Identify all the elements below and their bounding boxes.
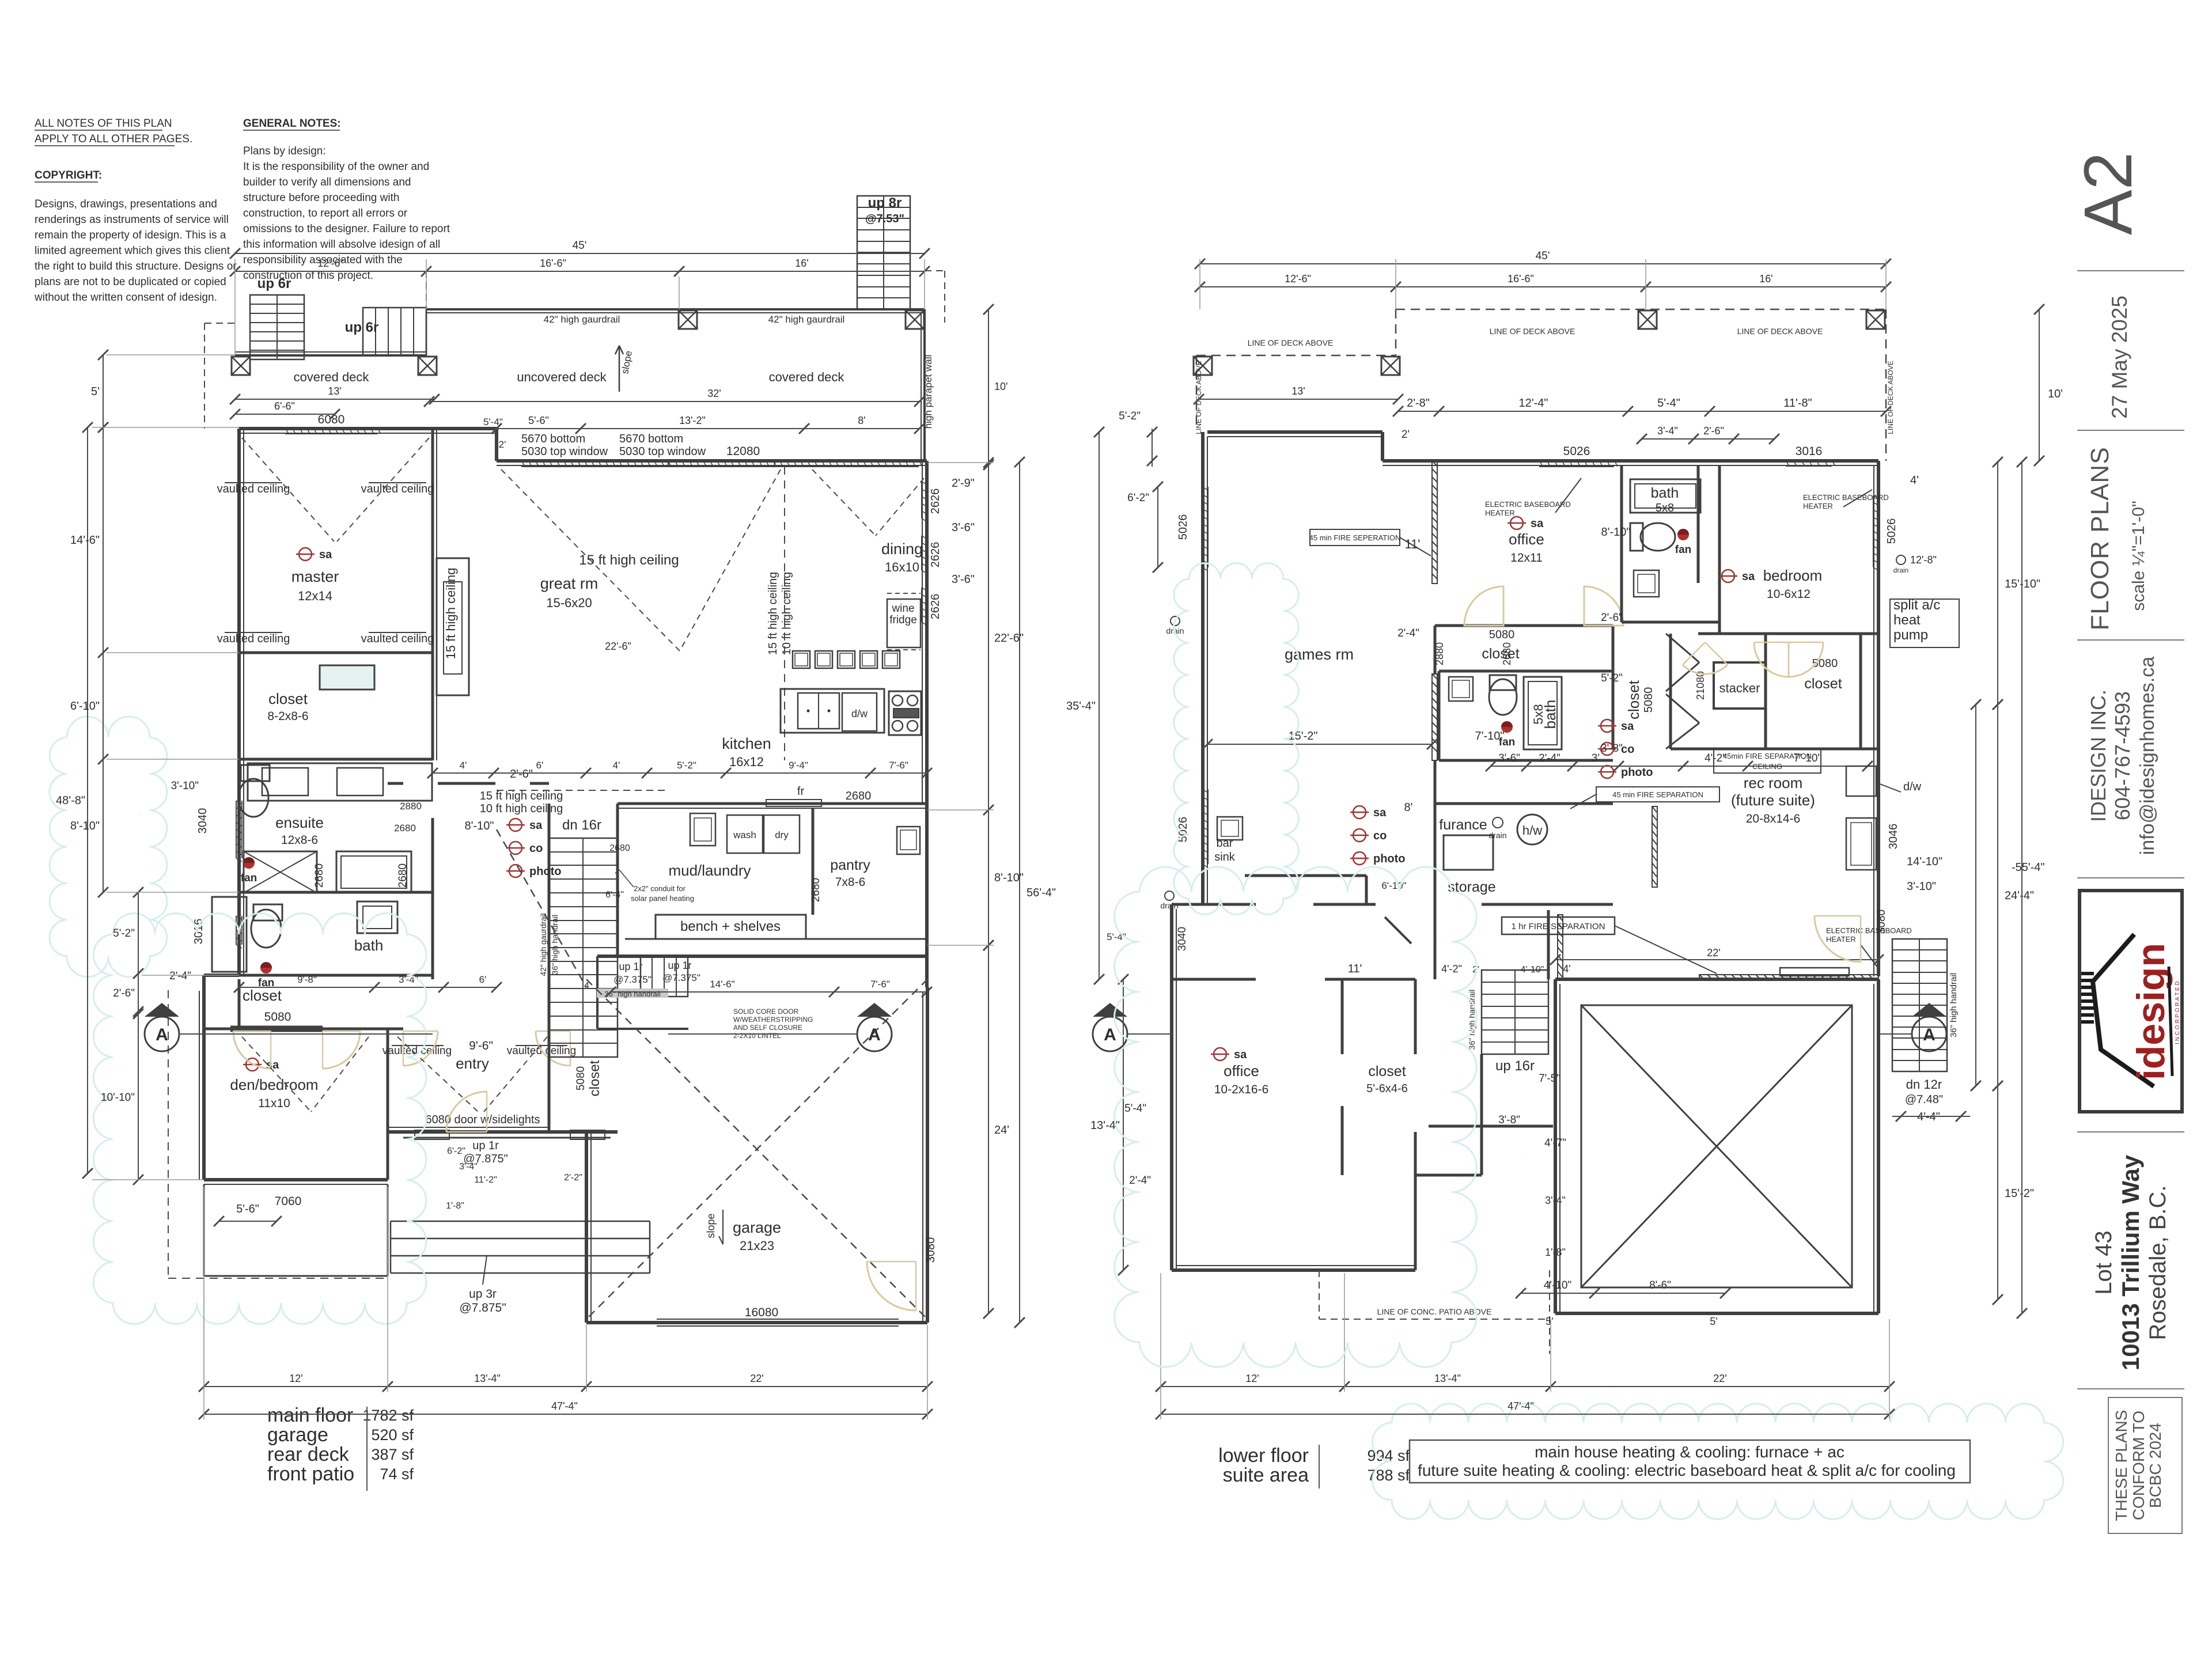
svg-text:Lot 43: Lot 43 xyxy=(2091,1230,2116,1294)
svg-text:rear deck: rear deck xyxy=(267,1444,350,1465)
svg-text:sa: sa xyxy=(319,548,332,561)
svg-text:10': 10' xyxy=(994,381,1007,392)
svg-text:this information will absolve: this information will absolve idesign of… xyxy=(243,238,440,251)
svg-text:split a/c: split a/c xyxy=(1893,597,1940,613)
svg-text:2'-6": 2'-6" xyxy=(1703,425,1724,437)
svg-text:closet: closet xyxy=(587,1060,603,1096)
svg-text:2880: 2880 xyxy=(1434,642,1445,665)
svg-text:LINE OF DECK ABOVE: LINE OF DECK ABOVE xyxy=(1887,361,1895,434)
svg-text:10 ft high ceiling: 10 ft high ceiling xyxy=(781,572,793,656)
svg-text:42" high gaurdrail: 42" high gaurdrail xyxy=(768,314,845,325)
svg-text:10'-10": 10'-10" xyxy=(101,1092,135,1104)
svg-text:16'-6": 16'-6" xyxy=(540,257,566,269)
svg-text:5030 top window: 5030 top window xyxy=(521,445,608,458)
svg-text:20-8x14-6: 20-8x14-6 xyxy=(1746,812,1801,825)
svg-text:3'-6": 3'-6" xyxy=(952,521,975,534)
svg-text:7'-10": 7'-10" xyxy=(1475,730,1505,743)
svg-text:5': 5' xyxy=(1710,1316,1717,1327)
svg-text:closet: closet xyxy=(1625,680,1642,719)
svg-text:fridge: fridge xyxy=(889,614,917,626)
svg-text:2'-4": 2'-4" xyxy=(1539,752,1560,764)
svg-text:sa: sa xyxy=(1234,1048,1247,1061)
svg-text:27 May 2025: 27 May 2025 xyxy=(2108,296,2131,419)
svg-text:uncovered deck: uncovered deck xyxy=(517,370,607,384)
svg-text:@7.375": @7.375" xyxy=(613,974,652,985)
svg-text:h/w: h/w xyxy=(1522,823,1542,838)
svg-text:1'-8": 1'-8" xyxy=(446,1201,464,1211)
svg-text:12x11: 12x11 xyxy=(1510,551,1543,565)
svg-text:slope: slope xyxy=(705,1213,717,1238)
svg-text:lower floor: lower floor xyxy=(1218,1445,1309,1467)
svg-text:GENERAL NOTES:: GENERAL NOTES: xyxy=(243,118,341,130)
svg-text:stacker: stacker xyxy=(1719,681,1760,695)
svg-text:d/w: d/w xyxy=(1903,781,1922,793)
svg-text:A: A xyxy=(1104,1025,1116,1044)
svg-text:8'-6": 8'-6" xyxy=(1649,1279,1671,1291)
svg-text:11'-2": 11'-2" xyxy=(474,1175,497,1185)
svg-text:8': 8' xyxy=(1404,801,1413,814)
svg-text:plans are not to be duplicated: plans are not to be duplicated or copied xyxy=(35,276,226,288)
svg-text:sink: sink xyxy=(1214,851,1236,863)
svg-text:9'-6": 9'-6" xyxy=(469,1039,493,1052)
svg-text:the right to build this struct: the right to build this structure. Desig… xyxy=(35,260,237,272)
svg-text:5080: 5080 xyxy=(1489,628,1515,641)
svg-text:4': 4' xyxy=(613,760,620,771)
svg-text:3046: 3046 xyxy=(1887,824,1900,850)
svg-text:15 ft high ceiling: 15 ft high ceiling xyxy=(444,568,458,660)
svg-text:47'-4": 47'-4" xyxy=(551,1400,578,1412)
svg-text:ELECTRIC BASEBOARD: ELECTRIC BASEBOARD xyxy=(1803,493,1889,502)
svg-text:56'-4": 56'-4" xyxy=(1027,887,1056,899)
svg-text:up 8r: up 8r xyxy=(868,195,902,211)
svg-text:3'-10": 3'-10" xyxy=(1907,880,1936,893)
svg-text:dn 12r: dn 12r xyxy=(1906,1077,1942,1092)
svg-text:front patio: front patio xyxy=(267,1463,354,1485)
svg-text:1782 sf: 1782 sf xyxy=(362,1407,414,1424)
svg-text:ELECTRIC BASEBOARD: ELECTRIC BASEBOARD xyxy=(1485,500,1571,509)
svg-text:2'-6": 2'-6" xyxy=(510,768,533,781)
svg-text:2'-6": 2'-6" xyxy=(1601,612,1623,624)
svg-text:15-6x20: 15-6x20 xyxy=(546,596,592,610)
svg-text:up 6r: up 6r xyxy=(257,276,291,291)
svg-text:5': 5' xyxy=(91,385,100,398)
svg-text:rec room: rec room xyxy=(1744,774,1803,791)
svg-text:16': 16' xyxy=(1759,273,1772,285)
svg-text:BCBC 2024: BCBC 2024 xyxy=(2146,1423,2164,1508)
svg-text:13'-4": 13'-4" xyxy=(1434,1373,1461,1384)
svg-text:5026: 5026 xyxy=(1885,518,1898,544)
svg-text:LINE OF DECK ABOVE: LINE OF DECK ABOVE xyxy=(1737,327,1823,336)
svg-text:520 sf: 520 sf xyxy=(371,1426,414,1444)
svg-text:74 sf: 74 sf xyxy=(380,1465,414,1483)
svg-text:2'-8": 2'-8" xyxy=(1407,397,1430,410)
svg-text:up 6r: up 6r xyxy=(345,320,379,335)
svg-text:up 16r: up 16r xyxy=(1495,1058,1535,1074)
svg-text:bath: bath xyxy=(354,937,384,954)
svg-text:15 ft high ceiling: 15 ft high ceiling xyxy=(579,552,679,568)
svg-text:closet: closet xyxy=(1368,1063,1406,1080)
svg-text:wash: wash xyxy=(733,829,756,840)
svg-text:HEATER: HEATER xyxy=(1803,502,1833,510)
svg-text:12'-8": 12'-8" xyxy=(1910,554,1937,566)
svg-text:wine: wine xyxy=(891,603,914,615)
svg-text:2626: 2626 xyxy=(929,488,942,514)
svg-text:32': 32' xyxy=(707,388,721,399)
svg-text:APPLY TO ALL OTHER PAGES.: APPLY TO ALL OTHER PAGES. xyxy=(35,133,192,145)
svg-text:CEILING: CEILING xyxy=(1752,762,1782,771)
svg-text:renderings as instruments of s: renderings as instruments of service wil… xyxy=(35,214,229,226)
svg-text:up 3r: up 3r xyxy=(469,1287,497,1301)
svg-text:22': 22' xyxy=(750,1373,763,1384)
svg-text:bench + shelves: bench + shelves xyxy=(680,919,781,934)
svg-text:2680: 2680 xyxy=(397,863,409,888)
svg-text:COPYRIGHT:: COPYRIGHT: xyxy=(35,169,102,181)
svg-text:IDESIGN INC.: IDESIGN INC. xyxy=(2086,690,2110,822)
svg-text:8': 8' xyxy=(858,415,865,426)
svg-text:HEATER: HEATER xyxy=(1485,509,1515,517)
svg-text:2': 2' xyxy=(499,439,506,450)
svg-text:pantry: pantry xyxy=(830,857,870,873)
svg-text:15'-10": 15'-10" xyxy=(2005,578,2040,590)
svg-text:co: co xyxy=(1373,829,1387,842)
svg-text:3'-6": 3'-6" xyxy=(952,573,975,586)
svg-text:main house heating & cooling:: main house heating & cooling: furnace + … xyxy=(1535,1443,1844,1461)
svg-text:5026: 5026 xyxy=(1563,445,1590,458)
svg-text:9'-4": 9'-4" xyxy=(789,760,808,771)
svg-text:LINE OF DECK ABOVE: LINE OF DECK ABOVE xyxy=(1490,327,1575,336)
svg-text:11x10: 11x10 xyxy=(258,1097,290,1110)
svg-text:suite area: suite area xyxy=(1223,1464,1309,1486)
svg-text:heat: heat xyxy=(1893,612,1921,628)
svg-text:7060: 7060 xyxy=(275,1195,302,1208)
svg-text:3'-6": 3'-6" xyxy=(1498,752,1520,764)
svg-text:co: co xyxy=(529,842,543,855)
svg-text:48'-8": 48'-8" xyxy=(56,794,85,807)
svg-text:14'-6": 14'-6" xyxy=(70,534,100,547)
svg-text:3': 3' xyxy=(1592,752,1600,764)
svg-text:5670 bottom: 5670 bottom xyxy=(619,433,683,445)
svg-text:A: A xyxy=(868,1025,881,1044)
svg-text:6'-2": 6'-2" xyxy=(1127,492,1149,504)
svg-text:vaulted ceiling: vaulted ceiling xyxy=(361,632,434,645)
svg-text:entry: entry xyxy=(456,1055,489,1072)
svg-text:3'-8": 3'-8" xyxy=(1601,743,1623,755)
svg-text:bedroom: bedroom xyxy=(1763,567,1823,584)
svg-text:2880: 2880 xyxy=(400,801,422,812)
svg-text:47'-4": 47'-4" xyxy=(1508,1400,1534,1412)
svg-text:main floor: main floor xyxy=(267,1404,353,1426)
svg-text:10 ft high ceiling: 10 ft high ceiling xyxy=(480,802,563,815)
svg-text:5080: 5080 xyxy=(575,1066,587,1090)
svg-text:10-2x16-6: 10-2x16-6 xyxy=(1214,1083,1269,1096)
svg-text:master: master xyxy=(291,568,339,585)
svg-text:I N C O R P O R A T E D: I N C O R P O R A T E D xyxy=(2175,981,2181,1044)
svg-text:5'-6x4-6: 5'-6x4-6 xyxy=(1366,1082,1408,1095)
svg-text:2680: 2680 xyxy=(846,790,872,802)
svg-text:2'-4": 2'-4" xyxy=(1397,627,1419,639)
svg-text:A: A xyxy=(1923,1025,1935,1044)
svg-text:36" high handrail: 36" high handrail xyxy=(604,990,660,998)
svg-text:36" high handrail: 36" high handrail xyxy=(550,915,559,975)
svg-text:info@idesignhomes.ca: info@idesignhomes.ca xyxy=(2137,657,2158,855)
svg-text:photo: photo xyxy=(1373,853,1406,865)
svg-text:d/w: d/w xyxy=(851,708,868,719)
svg-text:6'-4": 6'-4" xyxy=(605,890,624,900)
svg-text:6080: 6080 xyxy=(318,413,345,426)
svg-text:8'-10": 8'-10" xyxy=(1601,526,1631,539)
svg-text:garage: garage xyxy=(733,1219,781,1236)
svg-text:2'-4": 2'-4" xyxy=(169,970,191,982)
svg-text:5'-2": 5'-2" xyxy=(1119,410,1141,422)
svg-text:12': 12' xyxy=(1245,1373,1259,1384)
svg-text:36" high handrail: 36" high handrail xyxy=(1949,973,1959,1037)
svg-text:22'-6": 22'-6" xyxy=(605,641,631,652)
svg-text:45': 45' xyxy=(1536,250,1550,262)
svg-text:4'-10": 4'-10" xyxy=(1544,1279,1571,1291)
svg-text:drain: drain xyxy=(1893,566,1909,574)
svg-text:(future suite): (future suite) xyxy=(1731,791,1815,809)
svg-text:5080: 5080 xyxy=(264,1010,291,1024)
svg-text:scale ¼"=1'-0": scale ¼"=1'-0" xyxy=(2129,501,2148,611)
svg-text:14'-10": 14'-10" xyxy=(1907,855,1942,868)
svg-text:3040: 3040 xyxy=(1176,927,1188,951)
svg-text:office: office xyxy=(1509,531,1544,548)
svg-text:2-2X10 LINTEL: 2-2X10 LINTEL xyxy=(733,1032,781,1040)
svg-text:13': 13' xyxy=(328,385,341,397)
svg-text:387 sf: 387 sf xyxy=(371,1446,414,1463)
svg-text:5'-2": 5'-2" xyxy=(1601,672,1623,684)
svg-text:vaulted ceiling: vaulted ceiling xyxy=(217,483,290,495)
svg-text:great rm: great rm xyxy=(540,575,599,592)
svg-text:high parapet wall: high parapet wall xyxy=(923,355,934,429)
svg-text:5'-6": 5'-6" xyxy=(528,415,549,426)
svg-text:ALL NOTES OF THIS PLAN: ALL NOTES OF THIS PLAN xyxy=(35,118,172,130)
svg-text:45 min FIRE SEPERATION: 45 min FIRE SEPERATION xyxy=(1309,533,1401,542)
svg-text:bar: bar xyxy=(1217,837,1233,850)
svg-text:•: • xyxy=(806,705,810,717)
svg-text:12080: 12080 xyxy=(726,445,760,458)
svg-text:2680: 2680 xyxy=(313,863,325,888)
svg-text:drain: drain xyxy=(1488,831,1506,840)
svg-text:vaulted ceiling: vaulted ceiling xyxy=(217,632,290,645)
svg-text:4': 4' xyxy=(1910,474,1919,487)
svg-text:13': 13' xyxy=(1291,385,1305,397)
svg-text:den/bedroom: den/bedroom xyxy=(230,1076,318,1093)
svg-text:garage: garage xyxy=(267,1424,328,1446)
svg-text:2'-9": 2'-9" xyxy=(952,477,975,490)
svg-text:5080: 5080 xyxy=(1642,687,1655,713)
svg-text:limited agreement which gives: limited agreement which gives this clien… xyxy=(35,245,230,257)
svg-text:7x8-6: 7x8-6 xyxy=(835,876,866,889)
svg-text:closet: closet xyxy=(1804,676,1842,692)
svg-text:fr: fr xyxy=(797,785,805,798)
svg-text:2626: 2626 xyxy=(929,594,942,620)
svg-text:7'-6": 7'-6" xyxy=(870,979,890,990)
svg-text:16': 16' xyxy=(795,257,808,269)
svg-text:bath: bath xyxy=(1651,485,1679,501)
svg-text:10': 10' xyxy=(2048,388,2063,400)
svg-text:4': 4' xyxy=(460,760,467,771)
svg-text:dining: dining xyxy=(881,540,923,558)
svg-text:SOLID CORE DOOR: SOLID CORE DOOR xyxy=(733,1007,799,1016)
svg-text:Rosedale, B.C.: Rosedale, B.C. xyxy=(2145,1185,2171,1340)
svg-text:@7.53": @7.53" xyxy=(865,213,904,225)
svg-text:2'-6": 2'-6" xyxy=(113,987,135,999)
svg-text:bath: bath xyxy=(1541,700,1559,729)
svg-text:6'-6": 6'-6" xyxy=(274,400,295,412)
svg-text:13'-4": 13'-4" xyxy=(474,1373,501,1384)
svg-text:8'-10": 8'-10" xyxy=(465,820,494,832)
svg-text:future suite heating & cooling: future suite heating & cooling: electric… xyxy=(1418,1461,1956,1479)
svg-text:structure before proceeding wi: structure before proceeding with xyxy=(243,192,399,204)
svg-text:12x8-6: 12x8-6 xyxy=(281,834,318,847)
svg-text:idesign: idesign xyxy=(2129,943,2173,1080)
svg-text:dry: dry xyxy=(775,829,789,840)
svg-text:2'-2": 2'-2" xyxy=(564,1173,582,1183)
svg-text:10-6x12: 10-6x12 xyxy=(1767,588,1810,601)
svg-text:omissions to the designer. Fa: omissions to the designer. Failure to re… xyxy=(243,223,450,235)
svg-text:9'-8": 9'-8" xyxy=(297,974,317,985)
svg-text:2680: 2680 xyxy=(609,843,630,853)
svg-text:2680: 2680 xyxy=(1501,642,1513,665)
svg-text:24': 24' xyxy=(994,1124,1009,1137)
svg-text:W/WEATHERSTRIPPING: W/WEATHERSTRIPPING xyxy=(733,1016,813,1024)
svg-text:15 ft high ceiling: 15 ft high ceiling xyxy=(480,790,563,802)
svg-text:8-2x8-6: 8-2x8-6 xyxy=(267,710,308,723)
svg-text:vaulted ceiling: vaulted ceiling xyxy=(382,1045,452,1057)
svg-text:2'-4": 2'-4" xyxy=(1129,1175,1151,1187)
svg-text:3'-10": 3'-10" xyxy=(171,780,199,792)
svg-text:closet: closet xyxy=(243,987,282,1004)
svg-text:sa: sa xyxy=(1742,570,1755,583)
svg-text:sa: sa xyxy=(1531,517,1544,530)
svg-text:1 hr FIRE SEPARATION: 1 hr FIRE SEPARATION xyxy=(1512,922,1605,931)
svg-text:Designs, drawings, presentatio: Designs, drawings, presentations and xyxy=(35,198,217,210)
svg-text:3040: 3040 xyxy=(196,808,209,834)
svg-text:ensuite: ensuite xyxy=(275,814,324,831)
svg-text:24'-4": 24'-4" xyxy=(2005,889,2034,902)
svg-text:up 1r: up 1r xyxy=(472,1139,499,1152)
svg-text:21x23: 21x23 xyxy=(740,1238,774,1253)
svg-text:2680: 2680 xyxy=(394,823,416,834)
svg-text:15 ft high ceiling: 15 ft high ceiling xyxy=(767,572,779,656)
svg-text:kitchen: kitchen xyxy=(722,735,771,752)
svg-text:5026: 5026 xyxy=(1177,514,1190,540)
svg-text:6080 door w/sidelights: 6080 door w/sidelights xyxy=(425,1113,540,1126)
svg-text:14'-6": 14'-6" xyxy=(710,979,734,990)
svg-text:5'-4": 5'-4" xyxy=(1124,1103,1146,1115)
svg-text:16'-6": 16'-6" xyxy=(1508,273,1534,285)
svg-text:2626: 2626 xyxy=(929,542,942,568)
svg-text:3'-4": 3'-4" xyxy=(459,1162,478,1172)
svg-text:covered deck: covered deck xyxy=(769,370,845,384)
svg-text:2680: 2680 xyxy=(810,878,822,902)
svg-text:5'-2": 5'-2" xyxy=(113,927,135,940)
svg-text:15'-2": 15'-2" xyxy=(2005,1187,2034,1200)
svg-text:45': 45' xyxy=(573,240,587,252)
svg-text:5'-2": 5'-2" xyxy=(677,760,696,771)
svg-text:4'-2": 4'-2" xyxy=(1441,963,1462,975)
svg-text:sa: sa xyxy=(1373,806,1387,819)
svg-text:up 1r: up 1r xyxy=(619,961,642,972)
svg-text:5x8: 5x8 xyxy=(1656,502,1674,514)
svg-text:FLOOR PLANS: FLOOR PLANS xyxy=(2086,446,2114,630)
svg-text:5030 top window: 5030 top window xyxy=(619,445,706,458)
svg-text:604-767-4593: 604-767-4593 xyxy=(2111,691,2134,820)
svg-text:office: office xyxy=(1224,1062,1259,1080)
svg-text:mud/laundry: mud/laundry xyxy=(668,862,751,879)
svg-text:35'-4": 35'-4" xyxy=(1066,700,1096,713)
svg-text:10013 Trillium Way: 10013 Trillium Way xyxy=(2117,1154,2144,1370)
svg-text:12'-4": 12'-4" xyxy=(1519,397,1548,410)
svg-text:vaulted ceiling: vaulted ceiling xyxy=(361,483,434,495)
svg-text:covered deck: covered deck xyxy=(294,370,370,384)
svg-text:45min FIRE SEPARATION: 45min FIRE SEPARATION xyxy=(1723,752,1812,760)
svg-text:HEATER: HEATER xyxy=(1826,935,1856,944)
svg-text:13'-2": 13'-2" xyxy=(679,415,706,426)
svg-text:12'-6": 12'-6" xyxy=(317,257,344,269)
svg-text:3016: 3016 xyxy=(1796,445,1823,458)
svg-text:pump: pump xyxy=(1893,627,1928,643)
svg-text:closet: closet xyxy=(268,690,308,707)
svg-text:8'-10": 8'-10" xyxy=(70,820,100,832)
svg-text:dn 16r: dn 16r xyxy=(562,817,601,833)
svg-text:without the written consent of: without the written consent of idesign. xyxy=(34,291,217,304)
svg-text:7'-6": 7'-6" xyxy=(889,760,908,771)
svg-text:5'-4": 5'-4" xyxy=(1657,397,1680,410)
svg-text:A2: A2 xyxy=(2070,152,2146,235)
svg-text:45 min FIRE SEPARATION: 45 min FIRE SEPARATION xyxy=(1612,790,1703,799)
svg-text:Plans by idesign:: Plans by idesign: xyxy=(243,145,326,157)
svg-text:-55'-4": -55'-4" xyxy=(2012,861,2045,874)
svg-text:6'-10": 6'-10" xyxy=(70,700,100,713)
svg-text:3080: 3080 xyxy=(1876,910,1888,934)
svg-text:16x12: 16x12 xyxy=(729,755,764,769)
svg-text:A: A xyxy=(156,1025,168,1044)
svg-text:photo: photo xyxy=(1621,766,1653,779)
svg-text:6': 6' xyxy=(536,760,544,771)
svg-text:22': 22' xyxy=(1707,947,1720,959)
svg-text:11': 11' xyxy=(1404,537,1420,551)
svg-text:2': 2' xyxy=(1402,429,1410,441)
svg-text:LINE OF DECK ABOVE: LINE OF DECK ABOVE xyxy=(1248,338,1334,347)
svg-text:3'-4": 3'-4" xyxy=(1657,425,1678,437)
svg-text:6'-2": 6'-2" xyxy=(447,1146,465,1156)
svg-text:11': 11' xyxy=(1348,963,1362,975)
svg-text:@7.375": @7.375" xyxy=(662,972,700,983)
svg-text:16080: 16080 xyxy=(745,1306,778,1319)
svg-text:2x2" conduit for: 2x2" conduit for xyxy=(634,884,686,893)
svg-text:•: • xyxy=(827,705,831,717)
svg-text:6': 6' xyxy=(479,974,487,985)
svg-text:16x10: 16x10 xyxy=(885,560,919,574)
svg-text:fan: fan xyxy=(1675,544,1692,556)
svg-text:solar panel heating: solar panel heating xyxy=(631,894,694,903)
svg-text:5': 5' xyxy=(1546,1316,1553,1327)
svg-text:5670 bottom: 5670 bottom xyxy=(521,433,585,445)
svg-text:12'-6": 12'-6" xyxy=(1285,273,1311,285)
svg-text:5'-6": 5'-6" xyxy=(236,1203,259,1215)
svg-text:7'-5": 7'-5" xyxy=(1539,1073,1560,1085)
svg-text:remain the property of idesign: remain the property of idesign. This is … xyxy=(35,229,226,241)
svg-text:builder to verify all dimensio: builder to verify all dimensions and xyxy=(243,176,411,188)
svg-text:3080: 3080 xyxy=(925,1237,937,1263)
svg-text:12x14: 12x14 xyxy=(298,589,332,603)
svg-text:ELECTRIC BASEBOARD: ELECTRIC BASEBOARD xyxy=(1826,926,1912,935)
svg-text:22': 22' xyxy=(1713,1373,1726,1384)
svg-text:co: co xyxy=(1621,743,1634,756)
svg-text:construction, to report all er: construction, to report all errors or xyxy=(243,207,408,219)
